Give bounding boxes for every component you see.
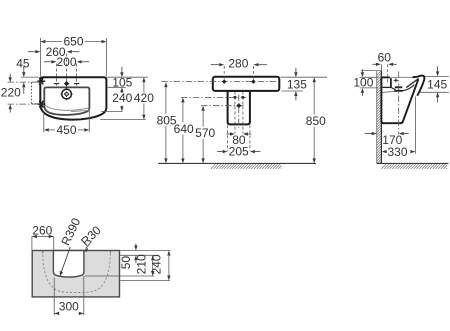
- svg-text:420: 420: [134, 91, 154, 105]
- svg-text:45: 45: [16, 57, 30, 71]
- svg-text:240: 240: [112, 91, 132, 105]
- svg-text:60: 60: [378, 51, 392, 65]
- svg-text:200: 200: [56, 55, 76, 69]
- svg-text:100: 100: [353, 76, 373, 90]
- svg-text:210: 210: [135, 254, 149, 274]
- svg-text:570: 570: [195, 126, 215, 140]
- svg-text:330: 330: [387, 145, 407, 159]
- svg-text:135: 135: [287, 77, 307, 91]
- svg-text:450: 450: [56, 123, 76, 137]
- svg-text:105: 105: [112, 75, 132, 89]
- svg-text:650: 650: [63, 35, 83, 49]
- svg-text:300: 300: [59, 300, 79, 314]
- svg-text:50: 50: [119, 256, 133, 270]
- svg-text:220: 220: [1, 85, 21, 99]
- svg-text:640: 640: [174, 122, 194, 136]
- svg-text:850: 850: [306, 114, 326, 128]
- svg-text:260: 260: [32, 223, 52, 237]
- svg-text:240: 240: [149, 254, 163, 274]
- svg-text:145: 145: [427, 78, 447, 92]
- svg-text:280: 280: [228, 56, 248, 70]
- svg-text:205: 205: [229, 145, 249, 159]
